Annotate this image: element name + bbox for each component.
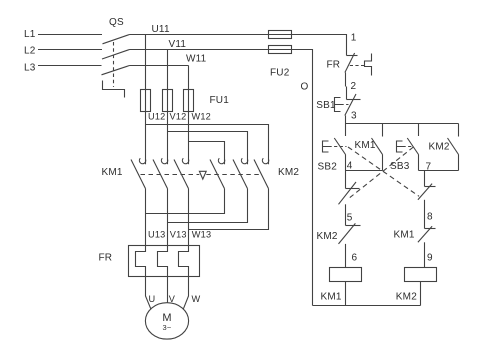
svg-text:5: 5 <box>347 213 353 224</box>
switch QS blade pole3 <box>102 66 130 75</box>
contactor KM1 pole1 contact <box>139 158 145 163</box>
wire motor lead U <box>146 277 152 310</box>
svg-text:1: 1 <box>351 32 357 43</box>
SB2 bottom stem <box>345 155 347 171</box>
contactor KM2 pole3 contact <box>262 158 268 163</box>
FR heater element V <box>158 246 168 277</box>
wire KM2 pole2 jumper <box>168 189 248 223</box>
coil KM2 bottom stem <box>420 282 422 306</box>
coil KM1 bottom stem <box>345 282 347 306</box>
wire V phase drop through fuse <box>167 50 169 165</box>
KM2 aux bottom stem <box>458 155 460 171</box>
coil KM2 <box>405 268 437 282</box>
svg-text:W13: W13 <box>192 229 212 239</box>
SB2 actuator E <box>323 141 329 152</box>
FR actuator dashed link <box>350 65 364 67</box>
wire L2 <box>38 49 102 51</box>
svg-text:O: O <box>301 82 309 93</box>
SB3 blade <box>407 138 418 155</box>
switch QS blade pole2 <box>102 50 130 60</box>
FR heater element W <box>179 246 189 277</box>
svg-text:V11: V11 <box>169 39 187 50</box>
svg-text:SB3: SB3 <box>390 161 410 172</box>
SB2 top stem <box>345 124 347 137</box>
switch QS linkage dashed <box>113 42 115 87</box>
KM2 aux blade <box>448 138 459 155</box>
svg-text:SB2: SB2 <box>318 161 338 172</box>
KM1 NC blade <box>418 226 432 242</box>
SB3 bottom stem <box>418 155 420 171</box>
svg-text:KM1: KM1 <box>355 140 376 151</box>
SB3 NC bottom stem <box>345 204 347 225</box>
SB1 bottom stem <box>345 116 347 124</box>
SB1 NC bar <box>347 99 361 101</box>
wire motor lead W <box>183 277 188 310</box>
SB3 top stem <box>418 124 420 137</box>
SB1 actuator dashed link <box>341 104 349 106</box>
contactor KM1 pole3 contact <box>182 158 188 163</box>
svg-text:V13: V13 <box>170 229 187 239</box>
wire KM2 pole1 jumper <box>146 189 225 214</box>
svg-text:KM2: KM2 <box>278 167 299 178</box>
contactor KM2 pole2 contact <box>241 158 247 163</box>
fuse FU1 element V <box>163 90 173 112</box>
svg-text:8: 8 <box>427 212 433 223</box>
contactor KM2 pole1 contact <box>218 158 224 163</box>
svg-text:FU2: FU2 <box>270 68 290 79</box>
fuse FU1 element W <box>184 90 194 112</box>
KM1 NC bar <box>425 228 436 230</box>
svg-text:3~: 3~ <box>163 323 172 332</box>
svg-text:KM2: KM2 <box>429 141 450 152</box>
KM1 NC bottom stem <box>424 242 426 267</box>
KM1 aux blade <box>372 138 383 155</box>
SB3 NC bar <box>346 188 360 190</box>
contactor KM1 pole2 contact <box>161 158 167 163</box>
wire W12 branch to KM2 pole1 <box>189 142 225 165</box>
SB2 blade <box>334 138 345 155</box>
SB3 actuator E <box>397 141 403 152</box>
svg-text:KM1: KM1 <box>394 229 415 240</box>
wire KM2 pole3 jumper <box>189 189 269 230</box>
svg-text:W: W <box>192 294 201 304</box>
SB2 NC bar <box>425 186 436 188</box>
FR NC bottom stem <box>345 73 347 87</box>
wire bus node 3 <box>346 123 459 125</box>
svg-text:3: 3 <box>351 110 357 121</box>
KM1 aux top stem <box>382 124 384 137</box>
SB1 top stem <box>346 87 348 100</box>
SB3 NC blade <box>339 182 357 204</box>
coil KM1 <box>330 268 362 282</box>
svg-text:U13: U13 <box>148 229 165 239</box>
svg-text:FR: FR <box>327 59 341 70</box>
wire V12 branch to KM2 pole2 <box>168 132 248 165</box>
wire V11 line and O rail <box>130 50 313 306</box>
wire bottom rail <box>313 305 421 307</box>
switch QS handle bracket <box>103 81 125 98</box>
KM2 aux top stem <box>458 124 460 137</box>
wire U phase drop through fuse <box>145 35 147 165</box>
svg-text:QS: QS <box>109 17 124 28</box>
svg-text:6: 6 <box>352 253 358 264</box>
fuse FU2 element 1 <box>269 31 292 39</box>
wire node 4 <box>346 170 383 172</box>
dashed interlock X line A <box>348 147 419 196</box>
wire U11 top line to control node 1 <box>130 35 347 56</box>
wire motor lead V <box>167 277 169 303</box>
wire KM1 pole1 down <box>145 189 147 246</box>
svg-text:U: U <box>149 294 156 304</box>
mechanical linkage dashed KM1-KM2 <box>141 174 262 176</box>
SB1 actuator E <box>335 98 341 112</box>
svg-text:9: 9 <box>427 253 433 264</box>
SB2 NC contact top stem <box>424 171 426 187</box>
svg-text:W11: W11 <box>186 54 207 65</box>
wire L3 <box>38 65 102 67</box>
svg-text:V12: V12 <box>170 112 187 122</box>
SB2 NC bottom stem <box>424 200 426 229</box>
svg-text:KM2: KM2 <box>317 231 338 242</box>
FR heater actuator symbol <box>365 54 372 76</box>
svg-text:L3: L3 <box>24 63 36 74</box>
SB3 actuator dashed link <box>403 146 412 148</box>
wire W11 line <box>130 65 189 67</box>
SB2 actuator dashed link <box>329 146 347 148</box>
svg-text:U11: U11 <box>152 24 170 35</box>
linkage triangle <box>199 171 206 179</box>
svg-text:2: 2 <box>351 81 357 92</box>
wire W phase drop through fuse <box>188 66 190 165</box>
fuse FU2 element 2 <box>269 46 292 54</box>
svg-text:KM2: KM2 <box>396 292 417 303</box>
KM2 NC blade <box>339 223 356 244</box>
motor M circle <box>145 303 188 339</box>
SB2 NC blade <box>418 184 432 200</box>
svg-text:FR: FR <box>99 253 113 264</box>
wire KM1 pole2 down <box>167 189 169 246</box>
overload relay FR box <box>129 246 200 277</box>
FR heater element U <box>136 246 146 277</box>
wire L1 <box>38 34 102 36</box>
fuse FU1 element U <box>141 90 151 112</box>
svg-text:KM1: KM1 <box>321 292 342 303</box>
svg-text:FU1: FU1 <box>210 95 230 106</box>
SB1 blade <box>345 94 356 116</box>
svg-text:L1: L1 <box>24 29 36 40</box>
svg-text:KM1: KM1 <box>102 167 123 178</box>
svg-text:U12: U12 <box>148 112 165 122</box>
FR NC contact blade <box>345 53 355 73</box>
KM1 aux bottom stem <box>382 155 384 171</box>
svg-text:W12: W12 <box>192 112 212 122</box>
KM2 NC bar <box>346 225 361 227</box>
wire KM1 pole3 down <box>188 189 190 246</box>
dashed interlock X line B <box>350 147 414 198</box>
svg-text:4: 4 <box>347 160 353 171</box>
switch QS blade pole1 <box>103 35 130 44</box>
wire node 7 <box>419 170 459 172</box>
FR NC contact bar <box>347 55 358 57</box>
svg-text:L2: L2 <box>24 46 36 57</box>
SB3 NC contact top stem <box>345 171 347 189</box>
wire U12 branch to KM2 pole3 <box>146 125 269 165</box>
KM2 NC bottom stem <box>345 244 347 268</box>
svg-text:SB1: SB1 <box>316 100 336 111</box>
